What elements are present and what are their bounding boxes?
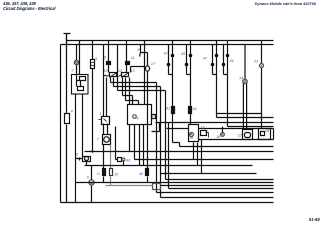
fan wire c <box>107 76 166 117</box>
fan wire a <box>111 78 157 83</box>
gray box B <box>153 184 161 190</box>
long line 203 <box>61 202 274 204</box>
connector 6 <box>89 180 94 185</box>
svg-text:22: 22 <box>237 133 242 137</box>
svg-text:3: 3 <box>76 153 79 157</box>
junction <box>167 63 171 67</box>
connector 2 <box>74 60 78 64</box>
svg-text:43: 43 <box>164 52 168 56</box>
pair2 left wire <box>187 45 191 75</box>
connector in U3 <box>190 133 194 137</box>
line after B <box>161 185 274 187</box>
svg-text:45: 45 <box>181 52 185 56</box>
line A <box>76 182 274 184</box>
bus bar second <box>61 44 274 46</box>
svg-text:7: 7 <box>97 138 100 142</box>
fuse F2 <box>91 60 95 69</box>
battery feed T <box>64 34 71 45</box>
connector 74 <box>243 79 248 84</box>
pair4 right wire <box>227 41 229 127</box>
svg-text:4: 4 <box>95 57 97 61</box>
long line 197 <box>161 197 274 199</box>
staircase riser c <box>165 91 167 180</box>
riser harness <box>201 140 203 174</box>
wire <box>79 41 81 75</box>
mid line 117 <box>217 117 274 119</box>
lamp <box>104 137 110 143</box>
wire comp3 bottom riser <box>86 162 88 166</box>
junction <box>91 150 93 152</box>
starter left stub <box>76 158 83 161</box>
wire ring 17 feed <box>147 53 149 183</box>
tab on U2 <box>152 115 156 119</box>
fuse link2 <box>110 169 113 176</box>
pair2 right wire <box>190 41 192 125</box>
lamp box <box>103 135 111 145</box>
riser flasher to 151.2 <box>139 125 141 166</box>
fuse F4 <box>65 114 70 124</box>
svg-text:26: 26 <box>264 129 270 133</box>
svg-text:11: 11 <box>97 172 101 176</box>
wire 46 branch <box>116 127 118 160</box>
wire 46 down <box>123 161 125 166</box>
svg-text:40: 40 <box>139 172 144 176</box>
box 22 <box>243 130 253 140</box>
wire circle6 riser <box>91 166 93 203</box>
svg-text:8: 8 <box>104 56 107 60</box>
wire stub <box>118 45 145 76</box>
wire <box>222 127 224 133</box>
staircase riser b <box>160 87 162 198</box>
junction <box>215 54 219 58</box>
wire relay out left <box>75 95 77 203</box>
long line 179 <box>166 179 274 181</box>
long line 146 <box>180 146 274 148</box>
wire breaker 8 feed <box>108 41 110 73</box>
long line 151 <box>85 151 274 153</box>
riser box U3 a <box>193 143 195 160</box>
svg-text:4: 4 <box>137 117 139 121</box>
riser box U3 b <box>197 143 199 166</box>
svg-text:17: 17 <box>151 62 156 66</box>
switch 9 wire <box>140 41 148 105</box>
fan wire f <box>129 78 131 105</box>
svg-text:10: 10 <box>114 172 119 176</box>
pair3 right wire <box>216 41 218 118</box>
wire to fusebox <box>104 45 108 135</box>
fan wire d <box>123 78 133 105</box>
wire lamp down black <box>103 145 105 183</box>
wire left outer <box>60 45 62 203</box>
wire to connector 2 <box>76 45 78 75</box>
fan wire b <box>114 78 161 87</box>
svg-text:6: 6 <box>87 176 90 180</box>
svg-text:41: 41 <box>166 107 170 111</box>
svg-text:74: 74 <box>239 77 243 81</box>
wire stub <box>104 75 107 77</box>
long line 159.8 <box>135 159 274 161</box>
svg-text:44: 44 <box>193 107 197 111</box>
starter comp 3 <box>83 157 91 162</box>
harness box bottom <box>199 139 274 141</box>
riser flasher to 159.8 <box>130 125 144 166</box>
staircase riser a <box>156 83 158 193</box>
connector 23 wire <box>261 41 263 129</box>
junction <box>211 63 215 67</box>
long line 165.6 <box>85 165 253 167</box>
harness box right <box>273 129 275 140</box>
ring 17 <box>146 66 150 71</box>
pair1 left wire <box>169 45 173 75</box>
svg-text:11: 11 <box>131 56 135 60</box>
fuse link <box>172 107 175 114</box>
flasher box U2 <box>128 105 152 125</box>
long line 173.4 <box>161 173 257 175</box>
long line 192 <box>157 192 274 194</box>
junction <box>226 54 230 58</box>
junction <box>222 63 226 67</box>
box U3 <box>189 125 199 142</box>
svg-text:14: 14 <box>152 114 156 118</box>
fuse link1 <box>103 169 106 176</box>
relay coil <box>78 87 84 91</box>
wire relay out to line A <box>82 95 84 157</box>
svg-text:12: 12 <box>118 69 122 73</box>
connector 36 <box>221 133 225 137</box>
pair3 left wire <box>213 45 217 75</box>
box 22 inner <box>245 133 251 138</box>
breaker 8 <box>107 62 111 65</box>
svg-text:23: 23 <box>253 59 259 63</box>
breaker 11 <box>126 62 130 65</box>
junction <box>189 54 193 58</box>
mid line 122 <box>156 122 274 124</box>
mid line 126 <box>228 126 274 128</box>
wire fuse feed <box>92 41 94 152</box>
svg-text:44: 44 <box>230 59 234 63</box>
mid line 113 <box>217 113 262 115</box>
relay 46 <box>118 158 122 162</box>
svg-text:4: 4 <box>71 110 73 114</box>
connector in U2 <box>133 115 137 119</box>
pair below 74 <box>243 84 246 130</box>
long line 188 <box>169 123 274 189</box>
junction <box>171 54 175 58</box>
svg-text:47: 47 <box>203 57 208 61</box>
fan wire e <box>126 78 139 105</box>
connector 46 <box>122 158 125 161</box>
box 26 <box>259 129 271 140</box>
switch contact S2 <box>122 73 129 77</box>
harness box top <box>167 128 274 130</box>
gray line B <box>106 185 153 187</box>
svg-text:19: 19 <box>201 126 205 130</box>
relay contact <box>80 77 86 81</box>
wire lamp down gray <box>110 145 112 186</box>
fuse link <box>189 107 192 114</box>
svg-text:9: 9 <box>138 48 140 52</box>
svg-text:1: 1 <box>100 112 102 116</box>
connector 74 wire <box>244 45 246 80</box>
fusebox F3 <box>102 117 110 125</box>
svg-text:13: 13 <box>131 69 136 73</box>
fusebox symbol <box>99 119 107 122</box>
svg-text:46: 46 <box>126 158 131 162</box>
connector 23 <box>259 63 263 67</box>
wire breaker 11 feed <box>126 41 128 73</box>
switch contact S1 <box>110 73 117 77</box>
wire main feed <box>66 35 68 203</box>
relay K1 box <box>72 75 89 95</box>
starter circle <box>85 157 89 161</box>
box 26 inner <box>261 132 265 136</box>
fuse link <box>146 169 149 176</box>
pair4 left wire <box>224 45 228 75</box>
svg-text:10: 10 <box>104 69 109 73</box>
svg-text:2: 2 <box>71 69 74 73</box>
svg-text:16: 16 <box>189 136 194 140</box>
bus bar top <box>67 40 274 42</box>
pair1 right wire <box>173 41 180 147</box>
junction <box>185 63 189 67</box>
